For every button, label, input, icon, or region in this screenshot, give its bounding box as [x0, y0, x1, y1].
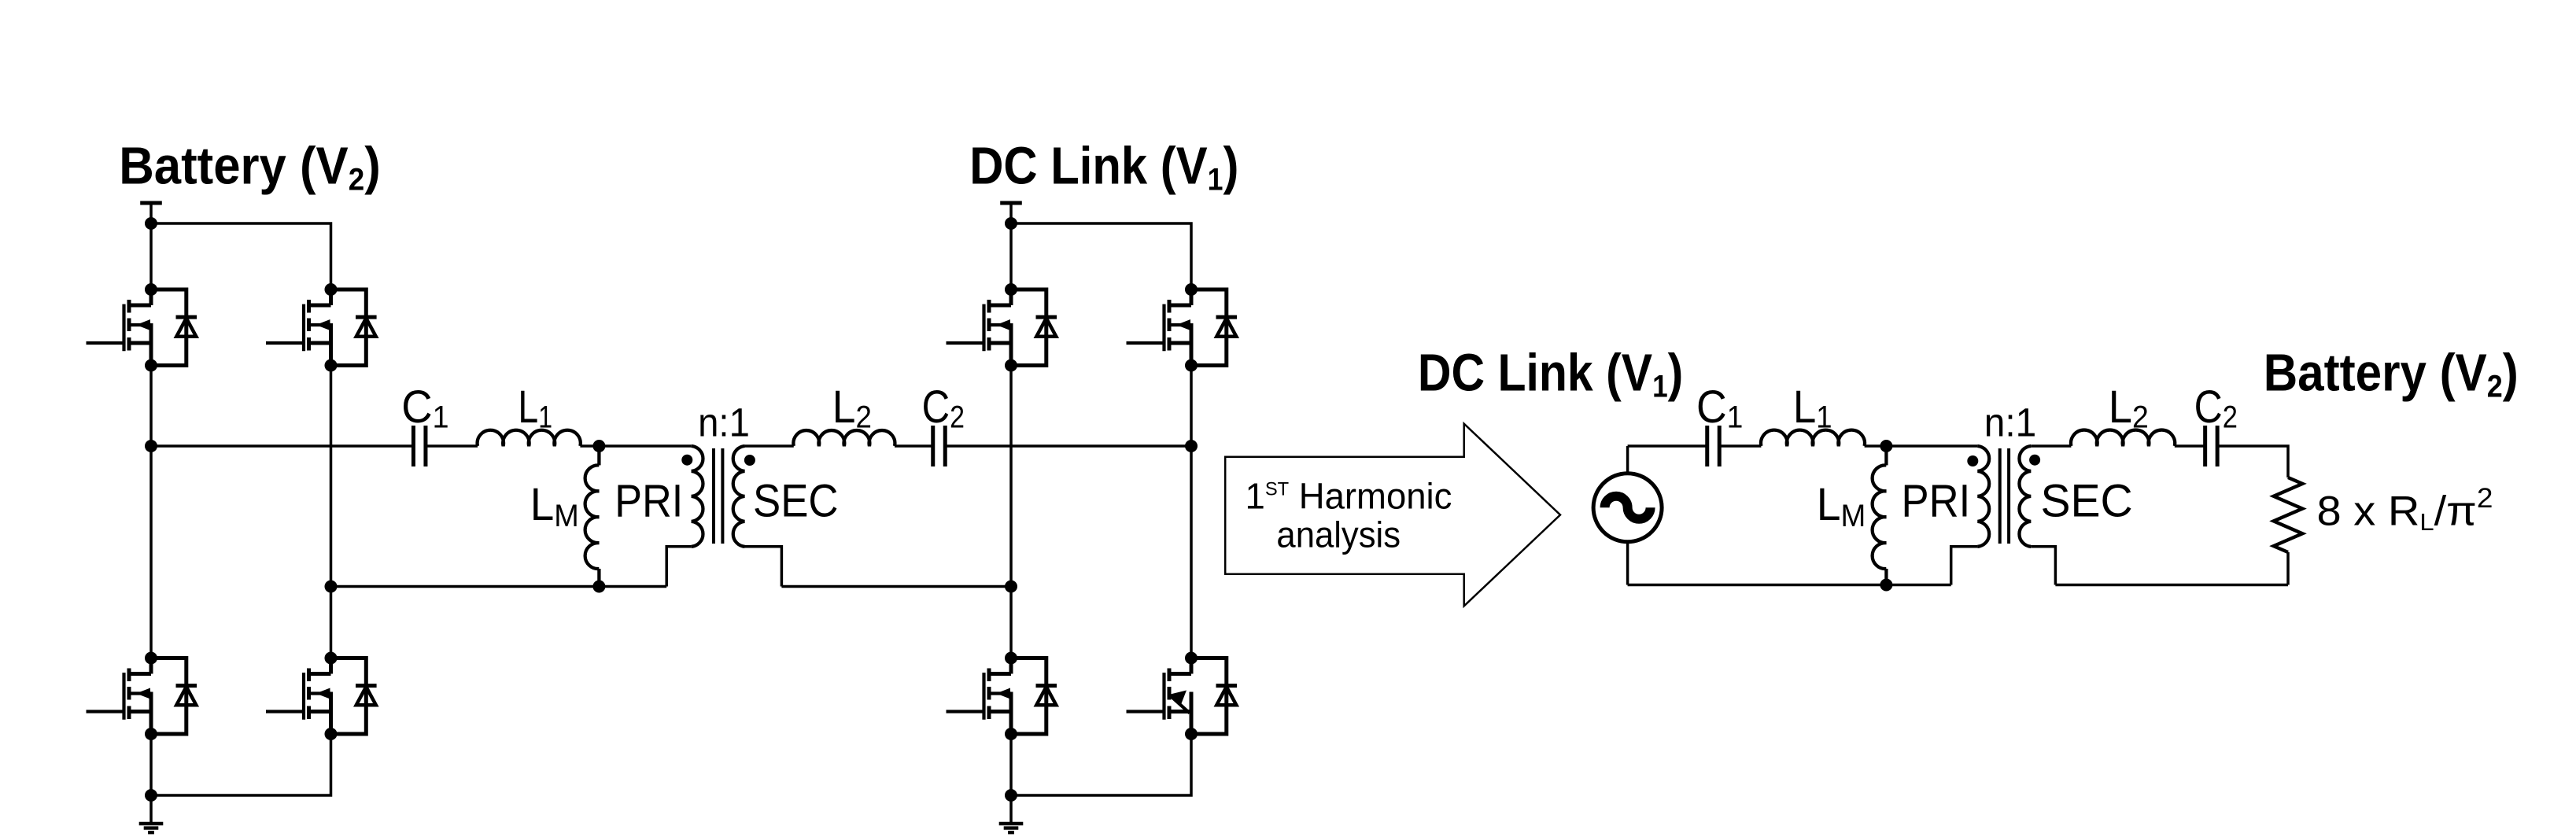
dc link positive terminal [1000, 203, 1022, 223]
wire PRI bottom exit right [1951, 547, 1978, 585]
label SEC [753, 475, 839, 526]
wire C2 to node D [945, 444, 1191, 448]
node battery top rail [145, 217, 157, 230]
svg-text:DC Link (V1): DC Link (V1) [1418, 344, 1683, 404]
node LM bottom [592, 581, 605, 593]
transistor Q3 [87, 658, 152, 735]
inductor L2 right [2071, 430, 2175, 446]
wire Q1 source to node A [149, 366, 153, 447]
svg-text:DC Link (V1): DC Link (V1) [969, 137, 1238, 197]
wire Q5 source to node C [1009, 366, 1013, 587]
node Q5 source [1005, 360, 1017, 372]
svg-text:n:1: n:1 [1984, 400, 2036, 445]
wire node D down to Q8 [1190, 446, 1193, 658]
wire transformer rail to node C [781, 585, 1011, 588]
phase dot T2 primary [1967, 455, 1978, 466]
svg-text:Battery (V2): Battery (V2) [2264, 343, 2519, 404]
node dclink top rail [1005, 217, 1017, 230]
node Q6 drain [1185, 283, 1198, 296]
label n:1 right [1984, 400, 2036, 445]
svg-text:SEC: SEC [753, 475, 839, 526]
label LM [530, 479, 579, 534]
wire node C down to Q7 [1009, 587, 1013, 658]
node dclink bridge bottom [1005, 789, 1017, 802]
node Q3 drain [145, 652, 157, 665]
wire SEC bottom exit [745, 547, 782, 587]
phase dot T2 secondary [2029, 455, 2040, 466]
wire node B down to Q4 [330, 587, 333, 658]
inductor LM magnetizing [585, 446, 600, 587]
label L1 right [1793, 382, 1832, 435]
body diode of Q6 [1191, 289, 1237, 366]
wire node A down to Q3 [149, 446, 153, 658]
node C dclink input [1005, 581, 1017, 593]
label SEC right [2041, 476, 2133, 527]
node Q8 source [1185, 728, 1198, 740]
transformer T1 core [714, 448, 722, 544]
wire SEC bottom exit right [2031, 547, 2055, 585]
svg-text:n:1: n:1 [698, 400, 750, 445]
transistor Q2 [266, 289, 331, 366]
wire load to bottom rail [2286, 552, 2290, 585]
wire equivalent bottom left [1628, 584, 1951, 587]
inductor L1 [478, 430, 581, 446]
capacitor C1 right [1707, 426, 1720, 466]
node Q1 drain [145, 283, 157, 296]
inductor L2 [793, 430, 895, 446]
transistor Q7 [947, 658, 1012, 735]
transistor Q4 [266, 658, 331, 735]
label DC Link (V1) right [1418, 344, 1683, 404]
node D dclink input [1185, 440, 1198, 452]
label L2 [832, 382, 872, 435]
node LM top right [1880, 440, 1892, 452]
label Battery (V2) right [2264, 343, 2519, 404]
wire SEC to L2 right [2031, 444, 2071, 448]
node Q5 drain [1005, 283, 1017, 296]
label C1 right [1696, 381, 1743, 435]
node Q2 source [325, 360, 338, 372]
body diode of Q7 [1011, 658, 1057, 735]
resistor RL load [2274, 477, 2303, 552]
wire node to PRI [599, 444, 691, 448]
phase dot primary [681, 455, 692, 466]
body diode of Q4 [331, 658, 377, 735]
wire top rail dc link bridge [1011, 223, 1191, 289]
label 1st harmonic line2 [1276, 514, 1401, 555]
wire bottom rail battery bridge [151, 734, 331, 795]
phase dot secondary [744, 455, 755, 466]
ac source V1 [1593, 446, 1662, 585]
node Q8 drain [1185, 652, 1198, 665]
wire source to C1 right [1628, 444, 1707, 448]
label C2 right [2194, 382, 2238, 434]
wire L2 to C2 right [2175, 444, 2205, 448]
wire L1 to node right [1865, 444, 1887, 448]
svg-text:PRI: PRI [614, 475, 683, 526]
node Q4 drain [325, 652, 338, 665]
label n:1 [698, 400, 750, 445]
label L1 [518, 382, 552, 434]
inductor LM right [1873, 446, 1887, 585]
wire node to PRI right [1886, 444, 1977, 448]
transformer T1 primary winding [692, 446, 703, 547]
capacitor C2 right [2205, 426, 2218, 466]
node Q1 source [145, 360, 157, 372]
node Q4 source [325, 728, 338, 740]
transformer T2 secondary winding [2019, 446, 2031, 547]
wire PRI bottom exit [666, 547, 692, 587]
transistor Q5 [947, 289, 1012, 366]
ground battery bridge [139, 795, 164, 832]
node Q7 drain [1005, 652, 1017, 665]
transistor Q8 [1127, 658, 1192, 735]
label L2 right [2109, 381, 2149, 434]
node B battery bridge output [325, 581, 338, 593]
wire top rail battery bridge [151, 223, 331, 289]
wire battery left leg upper [149, 223, 153, 289]
capacitor C2 [933, 426, 946, 466]
body diode of Q2 [331, 289, 377, 366]
inductor L1 right [1761, 430, 1865, 446]
wire Q2 source to node B [330, 366, 333, 587]
transformer T2 primary winding [1977, 446, 1989, 547]
node Q2 drain [325, 283, 338, 296]
label DC Link (V1) [969, 137, 1238, 197]
svg-text:Battery (V2): Battery (V2) [119, 136, 381, 197]
label LM right [1817, 480, 1866, 533]
transformer T1 secondary winding [733, 446, 745, 547]
wire C1 to L1 right [1719, 444, 1761, 448]
wire bottom rail dclink bridge [1011, 734, 1191, 795]
wire dclink left leg upper [1009, 223, 1013, 289]
svg-text:8 x RL/π2: 8 x RL/π2 [2317, 482, 2493, 536]
label C1 [401, 381, 448, 434]
svg-text:PRI: PRI [1902, 475, 1971, 526]
label Battery (V2) [119, 136, 381, 197]
wire Q6 source to node D [1190, 366, 1193, 447]
capacitor C1 [413, 426, 426, 466]
body diode of Q8 [1191, 658, 1237, 735]
ground dclink bridge [999, 795, 1024, 832]
label PRI [614, 475, 683, 526]
svg-text:SEC: SEC [2041, 476, 2133, 527]
body diode of Q5 [1011, 289, 1057, 366]
battery V2 positive terminal [140, 203, 162, 223]
label 8 x RL over pi squared [2317, 482, 2493, 536]
node Q3 source [145, 728, 157, 740]
node battery bridge bottom [145, 789, 157, 802]
node Q7 source [1005, 728, 1017, 740]
wire L1 to node [580, 444, 599, 448]
svg-text:analysis: analysis [1276, 514, 1401, 555]
label C2 [922, 382, 965, 434]
node LM bottom right [1880, 579, 1892, 592]
wire node B to transformer rail [331, 585, 667, 588]
label PRI right [1902, 475, 1971, 526]
wire C1 to L1 [426, 444, 478, 448]
label 1st harmonic line1 [1246, 476, 1452, 516]
wire node A to C1 [151, 444, 413, 448]
transistor Q1 [87, 289, 152, 366]
wire C2 to load [2217, 446, 2288, 477]
node LM top [592, 440, 605, 452]
node A battery bridge output [145, 440, 157, 452]
body diode of Q3 [151, 658, 197, 735]
wire L2 to C2 [895, 444, 933, 448]
body diode of Q1 [151, 289, 197, 366]
wire SEC to L2 [745, 444, 794, 448]
wire equivalent bottom right [2055, 584, 2288, 587]
transistor Q6 [1127, 289, 1192, 366]
node Q6 source [1185, 360, 1198, 372]
arrow 1st harmonic analysis [1225, 424, 1560, 607]
transformer T2 core [2000, 448, 2009, 544]
